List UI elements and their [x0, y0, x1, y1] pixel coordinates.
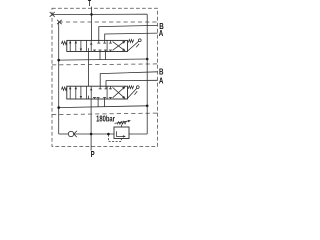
box1 up arrow — [69, 87, 71, 99]
box2 blocked top port — [97, 40, 100, 43]
box2 blocked top port — [103, 40, 106, 43]
wire A1 service line — [105, 33, 158, 40]
box2 blocked bottom port — [99, 50, 102, 52]
plugged port X1 — [50, 12, 55, 17]
svg-text:B: B — [159, 68, 163, 77]
box2 open centre arrow — [90, 86, 92, 99]
plugged port X2 — [57, 20, 62, 24]
section separator dashed line 1 — [59, 21, 158, 23]
box3 crossed arrows — [113, 87, 125, 97]
box1 up arrow — [75, 41, 77, 51]
relief adjustment arrow — [115, 121, 129, 124]
svg-text:A: A — [159, 77, 163, 86]
wire B1 service line — [99, 25, 158, 40]
node pilot branch junction — [107, 133, 110, 136]
box2 blocked bottom port — [103, 98, 106, 100]
node gallery-y60 — [57, 59, 60, 62]
return spring left — [62, 41, 68, 44]
node P junction — [90, 133, 93, 136]
wire V2 return drop 1 — [97, 99, 99, 107]
section separator dashed line 2 — [52, 64, 158, 65]
wire V2 return drop 2 — [104, 99, 106, 107]
wire check valve to relief valve — [74, 133, 114, 135]
box1 down arrow — [80, 87, 82, 99]
wire return line y107 — [59, 106, 148, 108]
wire A2 service line — [106, 80, 158, 86]
relief pilot line dashed — [108, 135, 121, 142]
box2 blocked bottom port — [104, 50, 107, 52]
node T junction — [90, 13, 93, 16]
wire B2 service line — [100, 72, 157, 86]
box3 crossed arrows — [113, 42, 125, 51]
relief spring stem — [121, 125, 123, 127]
box2 blocked top port — [105, 86, 108, 89]
wire right tank rail — [146, 14, 148, 134]
box2 open centre arrow — [90, 40, 92, 51]
check valve CV1 — [68, 131, 73, 136]
return spring right — [128, 40, 133, 43]
node right-rail-y107 — [146, 105, 149, 108]
manual lever — [128, 41, 139, 51]
box1 up arrow — [69, 41, 71, 51]
wire P port riser — [90, 134, 92, 151]
return spring right — [128, 86, 133, 89]
wire gallery elbow to check valve — [59, 133, 69, 135]
directional valve V1 body — [62, 39, 142, 52]
relief spring — [117, 121, 126, 124]
box2 blocked bottom port — [93, 98, 96, 100]
box2 blocked bottom port — [93, 50, 96, 52]
box3 blocked ports — [109, 40, 112, 43]
wire relief outlet to tank rail — [129, 133, 147, 135]
wire return line y60 — [59, 59, 148, 60]
svg-text:A: A — [159, 30, 163, 39]
svg-text:P: P — [91, 151, 95, 159]
wire T rail — [52, 13, 147, 15]
wire P feed riser from V2 — [90, 99, 92, 134]
box1 up arrow — [75, 87, 77, 99]
box2 blocked top port — [99, 86, 102, 89]
wire V1 return drop 1 — [99, 52, 101, 60]
node gallery-y107 — [57, 106, 60, 109]
box1 down arrow — [80, 41, 82, 51]
relief valve RV1 180bar — [108, 120, 130, 141]
wire V1 return drop 2 — [105, 52, 107, 60]
box2 blocked bottom port — [97, 98, 100, 100]
box3 blocked ports — [109, 86, 112, 89]
return spring left — [62, 87, 68, 90]
wire T port riser — [91, 7, 93, 41]
section separator dashed line 3 — [52, 113, 158, 115]
node right-rail-y60 — [146, 58, 149, 61]
wire carryover V1 to V2 — [88, 52, 90, 87]
wire left gallery vertical — [58, 22, 60, 134]
directional valve V2 body — [62, 86, 140, 99]
manifold block boundary (dashed enclosure) — [52, 8, 158, 146]
manual lever — [127, 88, 137, 98]
relief internal flow arrow — [116, 131, 123, 136]
svg-text:180bar: 180bar — [96, 116, 115, 124]
